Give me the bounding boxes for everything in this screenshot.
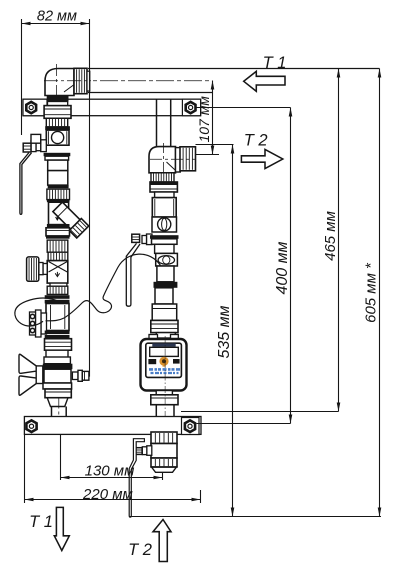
union nut N1 on elbow E1 — [74, 68, 87, 93]
strainer F1 flow arrow — [56, 215, 59, 221]
union nut N11 — [151, 320, 178, 332]
dimension 82 mm extension line left — [21, 19, 23, 135]
pipe stub — [50, 283, 67, 286]
svg-text:T 2: T 2 — [244, 132, 268, 150]
mounting rail bottom — [24, 417, 201, 435]
union nut N9 on elbow E2 — [180, 147, 196, 171]
heat meter U1 top label band — [152, 343, 175, 346]
sensor tee T1 body — [46, 304, 69, 331]
flow arrow T2 right — [241, 149, 282, 168]
strainer F1 tee body — [49, 202, 69, 224]
pipe to outlet — [51, 407, 53, 435]
wire: T1 pipe centerline — [44, 80, 211, 82]
dimension 82 mm extension line right — [89, 19, 91, 377]
heat meter U1 display — [150, 347, 179, 356]
bolt B2 — [186, 102, 196, 113]
sensor cable C2 loop at sensor S1 — [15, 298, 60, 326]
union nut N5 hatched — [47, 240, 68, 252]
svg-text:535 мм: 535 мм — [216, 305, 233, 358]
coupling M5 — [155, 192, 174, 198]
dimension 465 mm line — [338, 69, 340, 412]
union nut N12 — [151, 395, 178, 405]
adapter M13 — [156, 333, 175, 338]
pipe M16 — [155, 405, 157, 432]
svg-text:T 2: T 2 — [128, 541, 152, 559]
valve V1 bottom flange — [44, 153, 71, 156]
butterfly valve V3 wing handle — [19, 354, 38, 373]
ball valve V5 bottom nut — [151, 458, 177, 467]
threaded nipple M3 — [151, 173, 174, 182]
taper fitting — [47, 398, 68, 407]
dimension 535 mm line — [232, 145, 234, 517]
dimension 605 mm line — [379, 69, 381, 517]
ball valve V4 stem washers — [147, 234, 153, 245]
reference line elbow nut top — [196, 144, 234, 146]
heat meter U1 button row — [148, 359, 156, 364]
reference line top bolt — [197, 107, 291, 109]
regulating valve V2 cross symbol — [49, 262, 68, 273]
strainer F1 angled branch — [53, 202, 80, 229]
wire: T1 supply pipe top edge / 465-605 reference line — [88, 68, 380, 70]
mounting pad top-right — [182, 99, 200, 116]
threaded nipple — [46, 118, 67, 127]
svg-text:465 мм: 465 мм — [322, 211, 339, 261]
svg-text:82 мм: 82 мм — [37, 8, 77, 24]
ball valve V4 gland hex nut — [132, 234, 140, 242]
svg-text:107 мм: 107 мм — [196, 96, 212, 143]
taper M7 — [155, 244, 174, 253]
union nut N10 — [150, 182, 177, 192]
elbow E1 centerline cross — [44, 80, 91, 82]
svg-text:220 мм: 220 мм — [82, 486, 133, 503]
union nut N6 — [47, 286, 68, 294]
reference line bottom overall — [129, 516, 381, 518]
regulating valve V2 knurled knob — [27, 257, 39, 281]
temperature sensor S1 pocket plates — [41, 313, 47, 334]
butterfly valve V3 body — [44, 357, 70, 364]
regulating valve V2 body — [47, 261, 68, 284]
coupling segments — [46, 350, 68, 357]
reference line 465 bottom — [181, 411, 339, 413]
regulating valve V2 flow arrow — [55, 272, 59, 277]
ball valve V1 top flange — [45, 126, 70, 130]
ball valve V5 outlet taper — [152, 467, 177, 472]
mounting pad top-left — [23, 99, 47, 116]
union nut N7 — [45, 339, 72, 351]
ball valve V5 stem washers — [147, 446, 152, 456]
svg-text:T 1: T 1 — [29, 513, 53, 531]
flow arrow T1 top (left) — [244, 71, 285, 91]
valve V1 handle lever — [20, 153, 32, 215]
dimension 220 mm extension right — [200, 490, 202, 503]
valve V1 gland hex nut — [23, 143, 31, 152]
heat meter U1 mounting tabs — [149, 335, 158, 340]
flange band pair upper — [45, 295, 70, 299]
regulating valve V2 knob stem — [43, 264, 47, 275]
mounting pad bottom-right — [182, 418, 200, 435]
pipe M9 — [157, 266, 174, 282]
union nut N4 — [46, 228, 70, 236]
ball valve V4 bottom flange — [150, 235, 179, 239]
pipe M1 top — [156, 99, 158, 146]
dimension 220 mm extension left — [24, 434, 26, 503]
sensor cable C1 from meter to sensor S1 — [46, 254, 161, 321]
drain port D1 — [72, 372, 78, 380]
ball valve V1 body — [46, 130, 69, 145]
ball valve V4 handle lever — [126, 243, 140, 306]
elbow E2 centerline — [150, 158, 196, 160]
heat meter U1 housing — [141, 339, 187, 391]
coupling M11 — [152, 304, 177, 320]
butterfly valve V3 top flange — [43, 364, 73, 370]
union nut N2 — [44, 106, 71, 119]
elbow E2 — [149, 147, 176, 173]
heat meter U1 inner frame — [146, 343, 182, 377]
dimension 400 mm line — [290, 108, 292, 424]
ball valve V4 ball section — [152, 217, 177, 232]
pipe M10b — [155, 288, 173, 304]
strainer F1 cap hatched — [69, 219, 88, 238]
heat meter U1 orange button — [159, 357, 168, 366]
butterfly valve V3 hub — [36, 366, 43, 384]
flange band — [48, 185, 69, 188]
heat meter U1 bottom tab — [156, 391, 172, 395]
ball valve V4 upper body — [152, 198, 176, 217]
bolt B4 — [185, 420, 195, 432]
bolt B1 — [26, 102, 36, 113]
svg-text:T 1: T 1 — [263, 54, 287, 72]
ball valve V5 gland hex nut — [135, 448, 142, 455]
sight glass union M8 — [156, 253, 178, 266]
dimension 130 mm extension right — [162, 472, 164, 480]
reference line elbow outlet centerline — [196, 154, 220, 156]
pipe section — [48, 160, 68, 171]
wire: T1 supply pipe bottom edge — [88, 92, 213, 94]
union nut N8 — [45, 389, 71, 398]
svg-text:130 мм: 130 мм — [85, 463, 135, 480]
svg-text:400 мм: 400 мм — [274, 241, 291, 294]
elbow E2 collar — [176, 148, 181, 172]
dimension 130 mm extension left — [60, 434, 62, 480]
union nut N3 — [47, 189, 70, 200]
valve V1 stem washers — [41, 140, 47, 152]
fitting hex adapter below elbow — [47, 95, 69, 101]
valve V1 lever hook — [31, 134, 41, 143]
flow arrow T2 bottom (up) — [153, 520, 171, 562]
dimension 130 mm line — [61, 477, 163, 479]
mounting rail top — [23, 99, 201, 116]
ball valve V5 body — [151, 444, 177, 459]
flange band M10 — [154, 282, 178, 288]
ball valve V5 top nut — [151, 432, 177, 444]
reference line bottom bolt — [197, 423, 291, 425]
heat meter U1 blue label text — [149, 368, 181, 371]
ball valve V5 handle lever — [129, 439, 144, 518]
dimension 220 mm line — [25, 499, 201, 501]
flange band pair lower — [45, 331, 70, 335]
elbow E1 left top — [45, 69, 74, 96]
dimension 82 mm line — [22, 23, 90, 25]
bolt B3 — [26, 420, 36, 432]
flange band — [47, 224, 70, 228]
flow arrow T1 bottom (down) — [54, 507, 69, 550]
coupling — [48, 252, 68, 260]
dimension 107 mm line — [212, 81, 214, 155]
svg-text:605 мм *: 605 мм * — [363, 262, 380, 323]
